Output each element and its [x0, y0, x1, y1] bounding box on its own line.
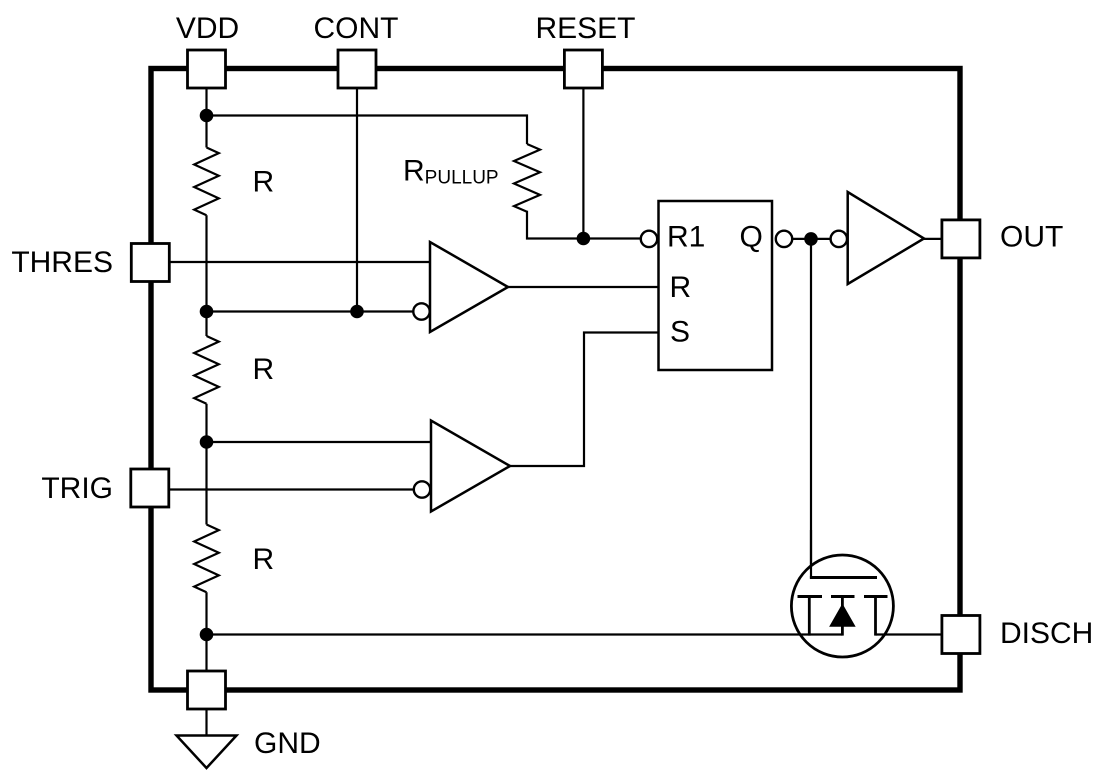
wire TRIG to comparator 2 minus bubble — [170, 488, 413, 490]
svg-text:VDD: VDD — [176, 12, 239, 45]
bubble output buffer input — [831, 231, 847, 247]
wire gate entering circle — [810, 530, 812, 579]
junction divider tap 2/3 — [200, 305, 214, 319]
svg-text:THRES: THRES — [11, 246, 113, 279]
comparator U1 triangle — [430, 242, 508, 332]
svg-text:DISCH: DISCH — [1000, 617, 1093, 650]
pad GND — [188, 671, 226, 709]
svg-text:R1: R1 — [667, 221, 705, 254]
bubble comparator 2 minus input — [414, 481, 430, 497]
junction divider bottom node — [200, 628, 214, 642]
wire GND pad to ground symbol — [205, 709, 207, 736]
resistor R top — [194, 148, 219, 216]
junction RESET/RPULLUP — [577, 232, 591, 246]
svg-text:R: R — [253, 166, 275, 199]
wire divider top segment — [205, 116, 207, 148]
transistor body stub middle — [841, 597, 844, 636]
svg-text:R: R — [253, 353, 275, 386]
junction CONT tap — [350, 305, 364, 319]
resistor R bottom — [194, 525, 219, 593]
pad TRIG — [131, 469, 169, 507]
ground symbol — [177, 736, 237, 769]
wire divider between R1 and R2 — [205, 215, 207, 336]
svg-text:Q: Q — [740, 221, 763, 254]
transistor body diode arrow — [830, 605, 855, 627]
pad DISCH — [942, 616, 980, 654]
wire RESET pad down to junction — [582, 87, 584, 239]
svg-text:TRIG: TRIG — [41, 472, 113, 505]
transistor channel segment right — [864, 595, 888, 598]
wire comparator 2 output to flip-flop S — [510, 333, 659, 467]
wire divider bottom to GND pad — [205, 592, 207, 672]
pad CONT — [338, 50, 376, 88]
transistor source stub right — [874, 597, 877, 636]
flip-flop U3 box — [659, 201, 773, 370]
svg-text:CONT: CONT — [314, 12, 399, 45]
output buffer U4 triangle — [848, 192, 924, 284]
IC boundary box — [151, 69, 960, 691]
junction VDD rail node — [200, 109, 214, 123]
pad THRES — [131, 244, 169, 282]
transistor channel segment middle — [831, 595, 855, 598]
comparator U2 triangle — [431, 421, 510, 512]
svg-text:S: S — [670, 316, 690, 349]
resistor R middle — [194, 336, 219, 404]
wire buffer output to OUT pad — [924, 238, 942, 240]
junction divider tap 1/3 — [200, 435, 214, 449]
resistor RPULLUP — [514, 144, 540, 212]
wire divider between R2 and R3 — [205, 404, 207, 525]
svg-text:RESET: RESET — [535, 12, 635, 45]
svg-text:R: R — [670, 271, 692, 304]
svg-text:RPULLUP: RPULLUP — [403, 155, 499, 189]
transistor Q1 body circle — [791, 555, 893, 657]
wire THRES to comparator 1 plus input — [170, 261, 430, 263]
bubble flip-flop Q output — [776, 231, 792, 247]
pad RESET — [564, 50, 602, 88]
wire transistor to DISCH pad — [876, 633, 943, 635]
bubble flip-flop R1 input — [641, 231, 657, 247]
svg-text:R: R — [253, 543, 275, 576]
wire bottom rail left to transistor — [207, 633, 843, 635]
transistor gate bar — [810, 576, 877, 579]
wire top rail from VDD node to RPULLUP top — [207, 116, 528, 145]
transistor drain stub left — [808, 597, 811, 636]
transistor channel segment left — [798, 595, 823, 598]
wire divider tap to comparator 1 minus bubble — [207, 310, 413, 312]
wire divider node to comparator 2 plus input — [207, 441, 432, 443]
pad OUT — [942, 220, 980, 258]
pad VDD — [188, 50, 226, 88]
wire RPULLUP bottom to R1 bubble — [527, 211, 641, 239]
wire CONT pad down to tap junction — [356, 87, 358, 312]
svg-text:OUT: OUT — [1000, 221, 1063, 254]
wire VDD pad to rail junction — [205, 87, 207, 118]
junction Q node to gate — [804, 232, 818, 246]
wire Q bubble to buffer bubble — [793, 238, 830, 240]
wire comparator 1 output to flip-flop R — [508, 286, 659, 288]
wire gate from Q junction down — [810, 239, 812, 579]
svg-text:GND: GND — [254, 727, 321, 760]
bubble comparator 1 minus input — [413, 303, 429, 319]
